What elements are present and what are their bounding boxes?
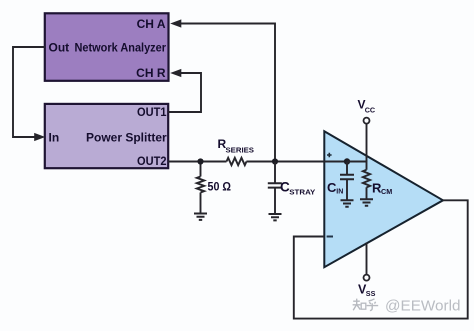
arrowhead into CH A bbox=[170, 19, 181, 27]
instrument box U2: Power Splitter bbox=[45, 104, 168, 168]
svg-text:CH R: CH R bbox=[136, 66, 166, 80]
svg-text:SERIES: SERIES bbox=[226, 146, 255, 155]
svg-text:In: In bbox=[49, 131, 60, 145]
svg-text:OUT1: OUT1 bbox=[137, 105, 167, 119]
op-amp U3 triangle bbox=[324, 131, 443, 267]
wire: node A to NA CH A bbox=[179, 24, 275, 162]
wire: feedback loop from output to inverting input bbox=[294, 200, 468, 318]
VCC terminal circle bbox=[364, 118, 370, 124]
wire: VCC terminal to op-amp bbox=[366, 124, 368, 162]
svg-text:CC: CC bbox=[365, 106, 375, 115]
resistor R1 50 ohm bbox=[197, 177, 204, 193]
arrowhead into In bbox=[34, 133, 45, 141]
label VCC bbox=[358, 98, 376, 115]
label VSS bbox=[358, 283, 376, 299]
svg-text:@EEWorld: @EEWorld bbox=[385, 297, 461, 314]
wire: RSERIES to node A and op-amp + input node B bbox=[246, 161, 347, 163]
svg-text:OUT2: OUT2 bbox=[137, 154, 167, 168]
svg-text:Network Analyzer: Network Analyzer bbox=[75, 41, 167, 55]
svg-text:Power Splitter: Power Splitter bbox=[86, 131, 167, 145]
wire: R1 to ground bbox=[200, 193, 202, 214]
ground at CIN bbox=[341, 200, 354, 206]
op-amp noninverting input marker + bbox=[327, 153, 332, 158]
label CIN bbox=[327, 180, 343, 196]
svg-text:Out: Out bbox=[49, 41, 70, 55]
ground at R1 bbox=[194, 214, 207, 220]
instrument box U1: Network Analyzer bbox=[45, 13, 169, 81]
svg-text:50 Ω: 50 Ω bbox=[208, 180, 232, 194]
svg-text:SS: SS bbox=[366, 289, 376, 298]
ground at CSTRAY bbox=[269, 214, 282, 220]
ground at RCM bbox=[360, 199, 373, 205]
wire: node B to RCM bbox=[347, 162, 367, 170]
wire: NA Out to splitter In bbox=[13, 47, 45, 137]
wire: CSTRAY to ground bbox=[274, 188, 276, 214]
svg-text:IN: IN bbox=[336, 189, 343, 196]
resistor RCM bbox=[363, 170, 370, 188]
resistor RSERIES bbox=[227, 158, 247, 165]
VSS terminal circle bbox=[364, 275, 370, 281]
wire: op-amp to VSS terminal bbox=[366, 243, 368, 275]
svg-text:STRAY: STRAY bbox=[289, 188, 315, 197]
arrowhead into CH R bbox=[170, 69, 181, 77]
svg-text:CH A: CH A bbox=[137, 17, 166, 31]
wire: node B to CIN bbox=[346, 162, 348, 175]
op-amp inverting input marker - bbox=[327, 236, 333, 238]
node B junction dot bbox=[344, 158, 350, 164]
svg-text:CM: CM bbox=[381, 187, 392, 196]
label RSERIES bbox=[218, 137, 255, 155]
capacitor CIN bbox=[340, 175, 354, 179]
wire: splitter OUT1 to NA CH R bbox=[168, 73, 201, 112]
label RCM bbox=[372, 181, 392, 197]
label CSTRAY bbox=[280, 180, 316, 197]
resistor R1 50 ohm lead bbox=[200, 162, 202, 177]
wire: node A to CSTRAY bbox=[274, 162, 276, 184]
junction dot at R1 bbox=[197, 158, 203, 164]
wire: splitter OUT2 to RSERIES bbox=[168, 161, 226, 163]
capacitor CSTRAY bbox=[268, 183, 282, 187]
node A junction dot bbox=[272, 158, 278, 164]
wire: RCM to ground bbox=[366, 187, 368, 199]
wire: CIN to ground bbox=[346, 179, 348, 200]
watermark zhihu glyphs bbox=[353, 299, 379, 311]
